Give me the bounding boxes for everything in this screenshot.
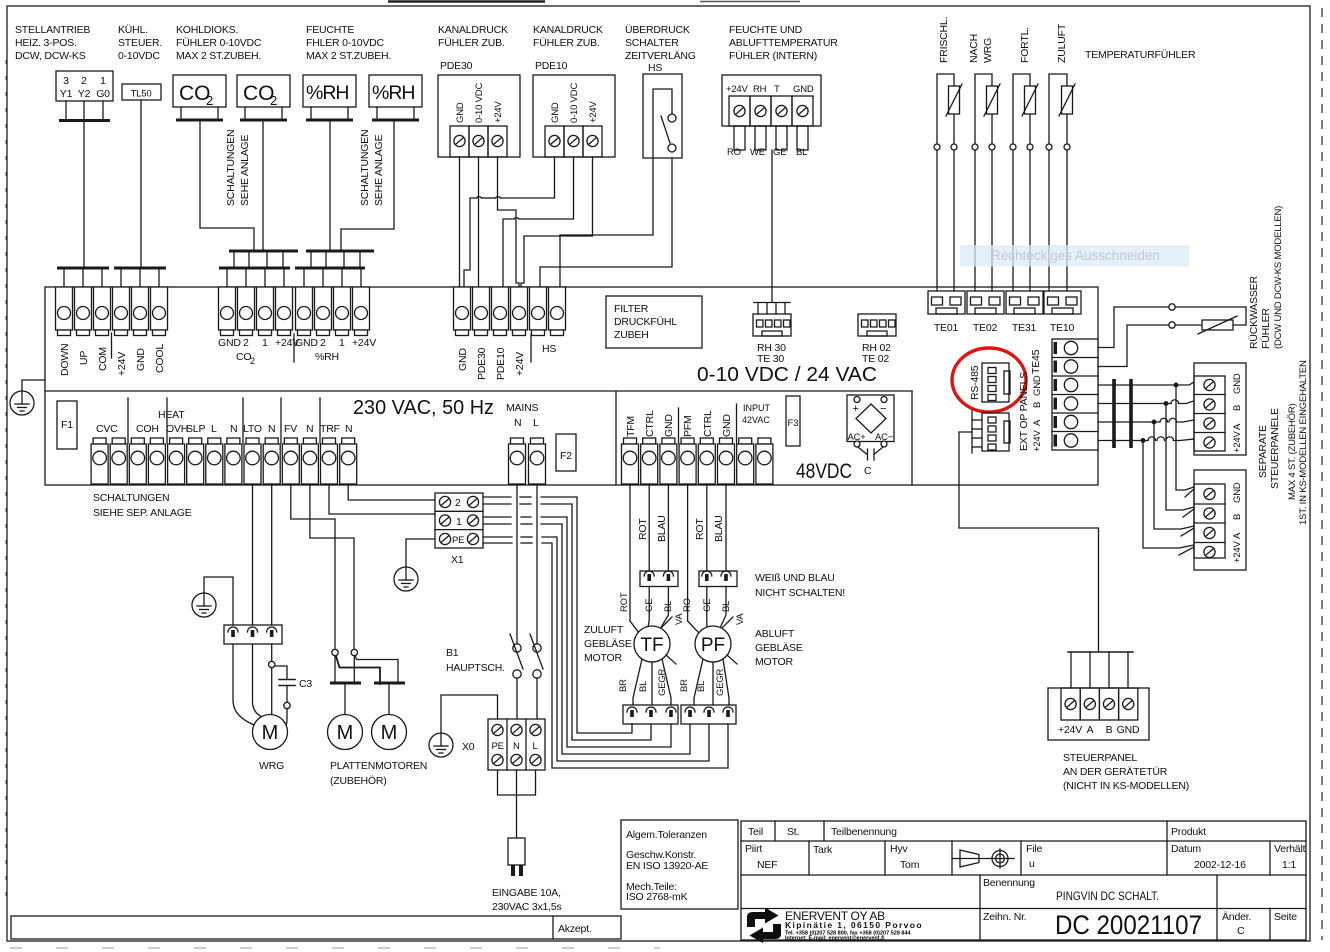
svg-text:+24V: +24V	[588, 100, 599, 123]
wire TL50 down	[140, 100, 142, 267]
label FEUCHTE UND	[729, 24, 838, 62]
divider CO2/%RH	[293, 334, 295, 362]
box Algem Toleranzen	[621, 820, 738, 909]
svg-text:WRG: WRG	[259, 760, 284, 772]
label UEBERDRUCK	[625, 24, 696, 74]
sensor FEUCHTE intern	[722, 75, 821, 158]
svg-text:ZULUFT: ZULUFT	[584, 624, 624, 636]
svg-text:GND: GND	[1117, 724, 1140, 736]
svg-text:FÜHLER: FÜHLER	[1260, 308, 1272, 349]
wires ext op to bars	[1098, 385, 1131, 441]
svg-text:+24V: +24V	[1058, 724, 1082, 736]
svg-text:C3: C3	[299, 678, 312, 690]
sensor TE01 frischluft	[934, 74, 962, 291]
steuerpanel comb	[1068, 652, 1133, 688]
svg-text:N: N	[513, 741, 520, 752]
wires PF connector to fan	[707, 587, 726, 630]
terminals MAINS N L	[506, 402, 546, 484]
wire comb to steuerpanel	[959, 432, 1099, 652]
svg-text:FORTL.: FORTL.	[1019, 27, 1031, 63]
svg-text:Tark: Tark	[813, 844, 833, 856]
svg-text:F2: F2	[560, 450, 572, 462]
svg-text:FEUCHTE UND: FEUCHTE UND	[729, 24, 803, 36]
svg-text:1: 1	[262, 337, 268, 349]
svg-text:C: C	[864, 465, 872, 477]
terminal block X0	[488, 719, 545, 770]
svg-text:0-10 VDC / 24 VAC: 0-10 VDC / 24 VAC	[697, 363, 877, 386]
svg-text:2: 2	[81, 75, 87, 87]
svg-text:Piirt: Piirt	[745, 843, 762, 855]
wire PDE30 GND	[459, 157, 461, 287]
fuse F3	[786, 396, 800, 446]
svg-text:RH: RH	[753, 84, 767, 95]
svg-text:GND: GND	[663, 414, 675, 437]
svg-text:SCHALTER: SCHALTER	[625, 37, 679, 49]
terminals TFM..INPUT42VAC	[622, 403, 773, 484]
svg-text:SLP: SLP	[186, 423, 205, 435]
terminals DOWN UP COM +24V GND COOL	[56, 287, 168, 376]
ground wrg	[192, 577, 233, 625]
wire CTRL rot TF	[648, 484, 650, 571]
bus bars RH terminal group	[295, 251, 374, 287]
label B1 HAUPTSCH	[446, 647, 505, 674]
wire CTRL rot PF	[706, 484, 708, 571]
svg-text:Produkt: Produkt	[1171, 826, 1206, 838]
svg-text:Teil: Teil	[748, 826, 763, 838]
svg-text:X1: X1	[451, 554, 464, 566]
svg-text:GND: GND	[1032, 375, 1043, 396]
strip Akzept	[11, 916, 621, 939]
svg-text:+24V: +24V	[514, 352, 526, 376]
sensor TE31 fortluft	[1010, 74, 1038, 291]
bus bar left terminals group A	[57, 267, 109, 270]
actuator Y1 Y2 G0	[56, 71, 113, 101]
svg-text:Tom: Tom	[900, 859, 920, 871]
svg-text:%RH: %RH	[306, 82, 349, 104]
capacitor C under rectifier	[858, 447, 883, 477]
svg-text:STEUER.: STEUER.	[118, 37, 162, 49]
svg-text:TEMPERATURFÜHLER: TEMPERATURFÜHLER	[1085, 49, 1196, 61]
svg-text:+24V: +24V	[726, 84, 749, 95]
svg-text:A: A	[1232, 423, 1243, 430]
svg-text:RO: RO	[682, 598, 693, 612]
svg-text:TRF: TRF	[320, 423, 340, 435]
svg-text:FRISCHL.: FRISCHL.	[938, 17, 950, 63]
label wire colors PF	[682, 598, 732, 612]
label KOHLDIOKS	[176, 24, 262, 62]
svg-text:ROT: ROT	[637, 518, 649, 540]
svg-text:VA: VA	[735, 613, 746, 625]
svg-text:F3: F3	[788, 418, 799, 429]
svg-text:CVC: CVC	[96, 423, 118, 435]
svg-text:BL: BL	[721, 601, 732, 612]
svg-text:A: A	[1232, 532, 1243, 539]
svg-text:Seite: Seite	[1274, 911, 1297, 923]
title block grid	[741, 821, 1306, 940]
fuse F1	[57, 401, 77, 449]
svg-text:WEIß UND BLAU: WEIß UND BLAU	[755, 572, 835, 584]
svg-text:TE45: TE45	[1030, 349, 1042, 374]
svg-text:INPUT: INPUT	[743, 403, 771, 413]
enervent logo	[747, 908, 781, 944]
%RH sensor 2	[369, 75, 422, 120]
svg-text:BR: BR	[618, 679, 629, 692]
svg-text:RÜCKWASSER: RÜCKWASSER	[1248, 276, 1260, 349]
svg-text:1ST. IN KS-MODELLEN EINGEHALTE: 1ST. IN KS-MODELLEN EINGEHALTEN	[1298, 360, 1309, 525]
svg-text:GEBLÄSE: GEBLÄSE	[584, 638, 632, 650]
TL50 box	[122, 84, 161, 100]
svg-text:GND: GND	[550, 102, 561, 123]
svg-text:VA: VA	[674, 613, 685, 625]
svg-text:N: N	[345, 423, 352, 435]
stubs bars to terminals	[64, 269, 159, 287]
svg-text:X0: X0	[462, 741, 475, 753]
fan PF	[695, 613, 746, 664]
svg-text:BL: BL	[696, 681, 707, 692]
panel block upper right	[1194, 363, 1246, 455]
svg-text:GND: GND	[1232, 373, 1243, 394]
svg-text:AN DER GERÄTETÜR: AN DER GERÄTETÜR	[1063, 766, 1168, 778]
svg-text:Rechteckiges Ausschneiden: Rechteckiges Ausschneiden	[991, 248, 1160, 263]
svg-text:Zeihn. Nr.: Zeihn. Nr.	[983, 911, 1027, 923]
label STELLANTRIEB	[15, 24, 90, 62]
svg-text:TFM: TFM	[625, 416, 637, 437]
svg-text:KANALDRUCK: KANALDRUCK	[438, 24, 508, 36]
label BR BL GEGR TF	[618, 668, 668, 696]
svg-text:GEBLÄSE: GEBLÄSE	[755, 642, 803, 654]
bus bar plattenmotor 1	[330, 682, 361, 685]
svg-text:+24V: +24V	[352, 337, 376, 349]
svg-text:0-10 VDC: 0-10 VDC	[569, 83, 580, 123]
svg-text:NACH: NACH	[968, 34, 980, 63]
svg-text:1:1: 1:1	[1282, 859, 1296, 871]
svg-text:FILTER: FILTER	[614, 303, 649, 315]
svg-text:N: N	[306, 423, 313, 435]
svg-text:230 VAC, 50 Hz: 230 VAC, 50 Hz	[353, 397, 494, 419]
switch B1 pole N	[510, 484, 523, 719]
svg-text:WE: WE	[750, 147, 765, 158]
label ABLUFT GEBLAESE MOTOR	[755, 628, 803, 668]
terminal block X1	[435, 493, 483, 566]
svg-text:EN ISO 13920-AE: EN ISO 13920-AE	[626, 860, 708, 872]
title block row1 labels	[748, 826, 1206, 838]
wire N to X1 row2	[348, 484, 435, 500]
svg-text:GE: GE	[644, 599, 655, 612]
rectifier bridge	[847, 395, 894, 447]
wires TF to lower connector	[633, 659, 671, 705]
svg-text:2: 2	[455, 497, 461, 509]
svg-text:(NICHT IN KS-MODELLEN): (NICHT IN KS-MODELLEN)	[1063, 780, 1189, 792]
svg-text:St.: St.	[787, 826, 799, 838]
svg-text:2: 2	[270, 93, 277, 108]
svg-text:Internet: E-mail: enervent@ene: Internet: E-mail: enervent@enervent.fi	[785, 936, 885, 942]
svg-text:FHLER 0-10VDC: FHLER 0-10VDC	[306, 37, 385, 49]
wire stubs Y box to bar	[66, 101, 103, 119]
svg-text:%RH: %RH	[372, 82, 415, 104]
svg-text:ABLUFT: ABLUFT	[755, 628, 795, 640]
svg-text:Y2: Y2	[78, 88, 91, 100]
svg-text:T: T	[774, 84, 780, 95]
svg-text:HS: HS	[648, 62, 662, 74]
svg-text:ZUBEH: ZUBEH	[614, 329, 649, 341]
svg-text:BL: BL	[796, 147, 807, 158]
svg-text:SEHE ANLAGE: SEHE ANLAGE	[373, 134, 385, 206]
svg-text:TE31: TE31	[1012, 322, 1037, 334]
svg-text:PINGVIN DC SCHALT.: PINGVIN DC SCHALT.	[1056, 889, 1159, 903]
switch HS	[643, 74, 682, 158]
connector RH02 TE02	[858, 314, 896, 365]
label FEUCHTE FHLER	[306, 24, 391, 62]
connector TF 2pin	[640, 571, 678, 587]
svg-text:Kipinätie 1, 06150 Porvoo: Kipinätie 1, 06150 Porvoo	[785, 920, 923, 930]
svg-text:GE: GE	[702, 599, 713, 612]
wire RH-2 down	[341, 122, 394, 250]
svg-text:B: B	[1232, 405, 1243, 411]
svg-text:OVH: OVH	[166, 423, 188, 435]
svg-text:2: 2	[243, 337, 249, 349]
svg-text:u: u	[1029, 858, 1035, 870]
connector TE10	[1044, 291, 1081, 334]
svg-text:SIEHE SEP. ANLAGE: SIEHE SEP. ANLAGE	[93, 507, 192, 519]
svg-text:F1: F1	[61, 419, 73, 431]
svg-text:FÜHLER 0-10VDC: FÜHLER 0-10VDC	[176, 37, 262, 49]
svg-text:STEUERPANEL: STEUERPANEL	[1063, 752, 1137, 764]
svg-text:AC−: AC−	[875, 432, 894, 443]
label wire colors TF	[619, 592, 674, 612]
svg-text:PDE30: PDE30	[476, 347, 488, 380]
svg-text:Verhält: Verhält	[1274, 843, 1306, 855]
terminals CVC..N	[91, 409, 357, 484]
svg-text:HEIZ. 3-POS.: HEIZ. 3-POS.	[15, 37, 77, 49]
bus bar left terminals group B	[114, 267, 166, 270]
svg-text:A: A	[1087, 724, 1094, 736]
svg-text:L: L	[533, 417, 539, 429]
label SCHALTUNGEN SIEHE SEP ANLAGE	[93, 492, 192, 519]
svg-text:SCHALTUNGEN: SCHALTUNGEN	[359, 130, 371, 206]
panel block lower right	[1194, 470, 1246, 570]
svg-text:GND: GND	[457, 348, 469, 371]
svg-text:0-10VDC: 0-10VDC	[118, 50, 160, 62]
svg-text:PDE30: PDE30	[440, 60, 473, 72]
motor platten 1	[328, 684, 363, 750]
svg-text:B1: B1	[446, 647, 459, 659]
wire CO2-1 down	[200, 122, 254, 250]
svg-text:COM: COM	[97, 347, 109, 371]
label BR BL GEGR PF	[679, 668, 726, 696]
divider +24V/HS	[530, 334, 532, 362]
svg-text:N: N	[268, 423, 275, 435]
wires X0 to plug	[498, 770, 536, 838]
switch B1 pole L	[530, 484, 543, 719]
wire TFM rot	[630, 484, 639, 633]
ground main board	[10, 380, 45, 415]
svg-text:DCW, DCW-KS: DCW, DCW-KS	[15, 50, 86, 62]
svg-text:+: +	[853, 403, 859, 415]
wire wrg pin2 to motor	[253, 644, 263, 717]
svg-text:Teilbenennung: Teilbenennung	[831, 826, 897, 838]
svg-text:SCHALTUNGEN: SCHALTUNGEN	[93, 492, 169, 504]
svg-text:GND: GND	[793, 84, 814, 95]
svg-text:RO: RO	[727, 147, 741, 158]
motor platten 2	[372, 684, 407, 750]
svg-text:2002-12-16: 2002-12-16	[1194, 859, 1246, 871]
ground X0	[429, 695, 498, 757]
svg-text:42VAC: 42VAC	[742, 415, 770, 425]
label ROT BLAU pairs	[637, 515, 725, 542]
svg-text:STELLANTRIEB: STELLANTRIEB	[15, 24, 90, 36]
bus bar under Y box	[59, 119, 110, 122]
svg-text:LTO: LTO	[243, 423, 262, 435]
wire PDE10 0-10	[503, 157, 574, 287]
svg-text:Algem.Toleranzen: Algem.Toleranzen	[626, 829, 707, 841]
svg-text:TE02: TE02	[973, 322, 998, 334]
svg-text:KOHLDIOKS.: KOHLDIOKS.	[176, 24, 238, 36]
wires TF connector to fan	[648, 587, 668, 630]
svg-text:COOL: COOL	[154, 344, 166, 373]
svg-text:B: B	[1232, 514, 1243, 520]
label STEUERPANEL	[1063, 752, 1189, 792]
wire TRF to X1 row1	[329, 484, 435, 514]
title block row2 labels	[745, 843, 1306, 871]
wire TE45 loop top	[1098, 304, 1246, 367]
wire RH-1 down	[329, 122, 331, 250]
svg-text:FV: FV	[284, 423, 297, 435]
svg-text:PF: PF	[701, 635, 725, 656]
wire wrg pin3 to C3	[269, 644, 296, 727]
svg-text:PLATTENMOTOREN: PLATTENMOTOREN	[330, 760, 427, 772]
%RH sensor 1	[303, 75, 356, 120]
svg-text:Hyv: Hyv	[890, 843, 908, 855]
svg-text:KÜHL.: KÜHL.	[118, 24, 148, 36]
thermistor rueckwasser	[1198, 316, 1237, 334]
svg-text:−: −	[880, 403, 886, 415]
label KANALDRUCK 2	[533, 24, 603, 49]
connector TE31	[1006, 291, 1043, 334]
svg-text:0-10 VDC: 0-10 VDC	[474, 83, 485, 123]
svg-text:MAX 2 ST.ZUBEH.: MAX 2 ST.ZUBEH.	[176, 50, 261, 62]
svg-text:(DCW UND DCW-KS MODELLEN): (DCW UND DCW-KS MODELLEN)	[1273, 206, 1284, 349]
svg-text:CTRL: CTRL	[644, 410, 656, 437]
connector TF 3pin lower	[623, 705, 678, 724]
svg-text:NEF: NEF	[757, 859, 777, 871]
svg-text:UP: UP	[78, 351, 90, 365]
svg-text:TL50: TL50	[131, 89, 152, 100]
svg-text:+24V: +24V	[1032, 429, 1043, 452]
svg-text:DOWN: DOWN	[59, 344, 71, 376]
svg-text:AC+: AC+	[848, 432, 867, 443]
svg-text:EINGABE 10A,: EINGABE 10A,	[492, 887, 561, 899]
svg-text:KANALDRUCK: KANALDRUCK	[533, 24, 603, 36]
svg-text:G0: G0	[96, 88, 110, 100]
svg-text:FÜHLER ZUB.: FÜHLER ZUB.	[533, 37, 600, 49]
wire CO2-2 down	[262, 122, 264, 250]
wire FEUCHTE to RH30	[771, 150, 773, 302]
svg-text:DC 20021107: DC 20021107	[1055, 910, 1202, 940]
svg-text:Datum: Datum	[1171, 843, 1201, 855]
svg-text:GND: GND	[1232, 482, 1243, 503]
svg-text:MAX 4 ST. (ZUBEHÖR): MAX 4 ST. (ZUBEHÖR)	[1287, 403, 1298, 500]
svg-text:GEGR: GEGR	[657, 668, 668, 696]
label KANALDRUCK 1	[438, 24, 508, 49]
wire Y2 down	[83, 122, 85, 267]
svg-text:STEUERPANELE: STEUERPANELE	[1269, 408, 1281, 489]
svg-text:GND: GND	[295, 337, 318, 349]
svg-text:GND: GND	[455, 102, 466, 123]
svg-text:1: 1	[339, 337, 345, 349]
bus bars ext op	[1114, 379, 1131, 448]
label KUEHL	[118, 24, 162, 62]
svg-text:ISO 2768-mK: ISO 2768-mK	[626, 891, 688, 903]
bus bars CO2 terminal group	[219, 251, 298, 287]
svg-text:DRUCKFÜHL: DRUCKFÜHL	[614, 316, 677, 328]
svg-text:ABLUFTTEMPERATUR: ABLUFTTEMPERATUR	[729, 37, 838, 49]
svg-text:%RH: %RH	[315, 351, 339, 363]
wires PF to lower connector	[694, 659, 729, 705]
svg-text:1: 1	[100, 75, 106, 87]
board outline	[45, 287, 1098, 485]
svg-text:Benennung: Benennung	[983, 877, 1035, 889]
svg-text:3: 3	[63, 75, 69, 87]
svg-text:TE01: TE01	[934, 322, 959, 334]
wire N to wrg connector	[271, 484, 273, 625]
svg-text:BLAU: BLAU	[656, 515, 668, 542]
connector PF 3pin lower	[681, 705, 736, 724]
svg-text:ÜBERDRUCK: ÜBERDRUCK	[625, 24, 690, 36]
svg-text:MOTOR: MOTOR	[584, 652, 623, 664]
svg-text:PDE10: PDE10	[535, 60, 568, 72]
wire PDE10 GND with hops	[464, 157, 555, 287]
svg-text:HAUPTSCH.: HAUPTSCH.	[446, 662, 505, 674]
TFM group divider ticks	[679, 404, 737, 443]
projection symbol	[953, 849, 1014, 868]
jumper COM +24V	[111, 333, 113, 358]
bus bar plattenmotor 2	[374, 682, 405, 685]
label ZULUFT GEBLAESE MOTOR	[584, 624, 632, 664]
svg-text:GND: GND	[721, 414, 733, 437]
svg-text:230VAC 3x1,5s: 230VAC 3x1,5s	[492, 901, 562, 913]
wire bundle X1 to fan connectors	[483, 497, 728, 768]
svg-text:PFM: PFM	[682, 415, 694, 437]
svg-text:C: C	[1237, 925, 1245, 937]
svg-text:2: 2	[320, 337, 326, 349]
svg-text:ROT: ROT	[694, 518, 706, 540]
terminals CO2 group	[218, 287, 299, 366]
svg-text:BLAU: BLAU	[713, 515, 725, 542]
svg-text:BR: BR	[679, 679, 690, 692]
connector PF 2pin	[699, 571, 737, 587]
svg-text:A: A	[1032, 419, 1043, 426]
fan TF	[634, 613, 685, 664]
label SCHALTUNGEN SEHE ANLAGE 2	[359, 130, 385, 206]
svg-text:MOTOR: MOTOR	[755, 656, 794, 668]
plug EINGABE	[508, 838, 525, 876]
label SCHALTUNGEN SEHE ANLAGE 1	[225, 130, 251, 206]
terminals %RH group	[295, 287, 376, 363]
svg-text:BL: BL	[663, 601, 674, 612]
svg-text:PE: PE	[452, 535, 464, 546]
svg-text:ZULUFT: ZULUFT	[1056, 23, 1068, 63]
sensor PDE10	[533, 60, 615, 157]
svg-text:HS: HS	[542, 343, 556, 355]
svg-text:+24V: +24V	[1232, 430, 1243, 453]
svg-text:L: L	[211, 423, 217, 435]
wire PFM ro PF	[688, 484, 699, 633]
svg-text:MAX 2 ST.ZUBEH.: MAX 2 ST.ZUBEH.	[306, 50, 391, 62]
svg-text:FEUCHTE: FEUCHTE	[306, 24, 354, 36]
wire PDE30 0-10	[478, 157, 480, 287]
sensor TE10 zuluft	[1046, 74, 1075, 291]
svg-text:MAINS: MAINS	[506, 402, 538, 414]
